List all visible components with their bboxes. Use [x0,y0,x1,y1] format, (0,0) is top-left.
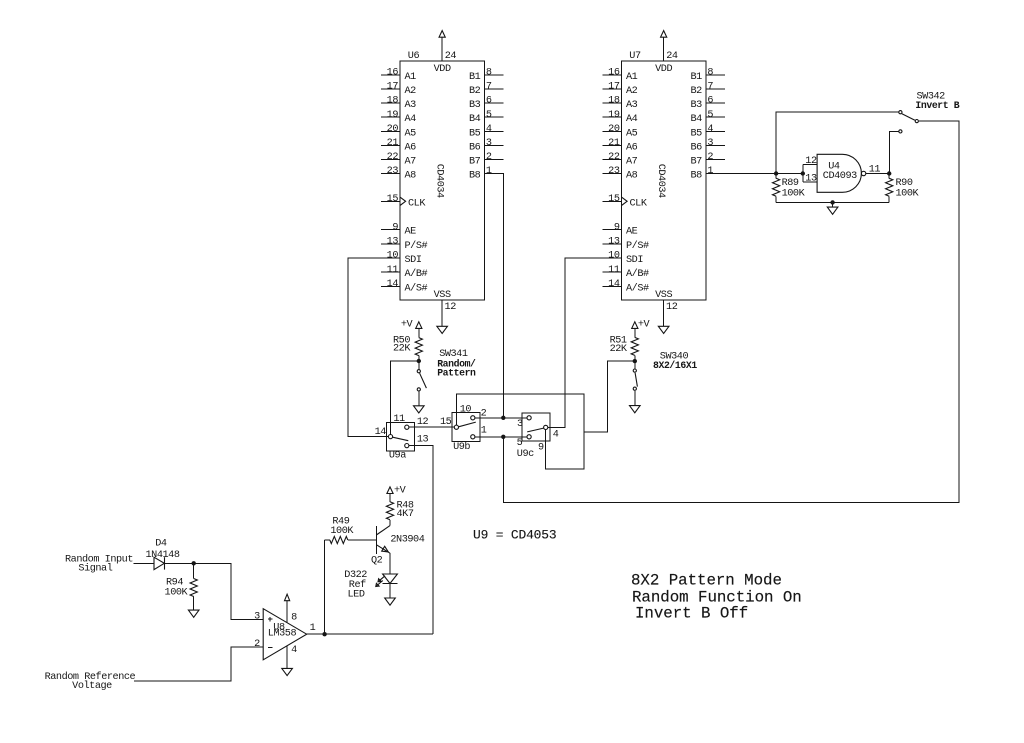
svg-text:B7: B7 [690,156,702,167]
svg-text:P/S#: P/S# [405,240,428,252]
svg-text:Invert B Off: Invert B Off [635,605,748,623]
svg-text:A1: A1 [626,72,638,83]
U7 A-input pins A1-A8 (pins 16-23) [603,68,638,182]
wire U7 B8 (pin 1) to NAND inputs [706,173,803,175]
svg-text:13: 13 [417,435,429,446]
svg-text:LM358: LM358 [268,629,297,640]
svg-text:10: 10 [608,251,620,262]
wire U8 pin 8 to +V [286,601,288,623]
svg-text:+V: +V [638,320,651,331]
svg-text:A/S#: A/S# [405,282,428,294]
svg-text:13: 13 [805,174,817,185]
svg-text:23: 23 [608,166,620,177]
node junction R51 / SW340 / control loop [633,359,637,363]
svg-text:8: 8 [291,613,297,624]
svg-text:100K: 100K [330,526,354,537]
svg-text:21: 21 [608,138,620,149]
wire SW342 riser from B8 junction [776,112,898,173]
wire R51 to SW340 junction [634,355,636,361]
svg-text:15: 15 [608,194,620,205]
svg-text:A/B#: A/B# [626,268,649,280]
wire ground rail under U4 [776,201,889,203]
wire U9a pin 13 to op-amp output [409,446,433,635]
wire Q2 emitter to LED D322 [389,553,391,574]
svg-text:B5: B5 [690,128,702,139]
svg-text:19: 19 [608,110,620,121]
U9a pin number labels [375,414,429,462]
svg-text:12: 12 [417,417,429,428]
svg-text:13: 13 [387,237,399,248]
ground below R94 [188,610,199,617]
resistor R49 100K [330,536,348,543]
svg-text:CLK: CLK [408,198,426,209]
resistor R48 4K7 [386,502,393,520]
svg-text:U9a: U9a [389,451,406,462]
wire U9b pin 1 to U9c pin 5 [475,436,527,438]
wire U9c pin 4 to U7 SDI (pin 10) [548,258,622,427]
svg-text:VDD: VDD [434,64,451,75]
svg-text:15: 15 [387,194,399,205]
svg-text:9: 9 [538,443,544,454]
svg-text:D4: D4 [155,539,167,550]
svg-text:Q2: Q2 [371,556,383,567]
svg-text:21: 21 [387,138,399,149]
node junction U6.B8 / U9b pin2 row [501,416,505,420]
IC U6 CD4034 body [400,51,484,301]
resistor R50 22K [415,338,422,356]
svg-text:6: 6 [707,96,713,107]
svg-text:B1: B1 [690,72,702,83]
svg-text:11: 11 [869,165,881,176]
node junction at NAND input bracket [801,171,805,175]
analog switch U9b (CD4053 section) [452,413,480,442]
diode D4 1N4148 [146,539,180,570]
svg-text:B8: B8 [469,171,481,182]
svg-text:A8: A8 [626,171,638,182]
wire U6 B8 (pin 1) down to U9b pin 2 row [484,174,503,418]
svg-text:6: 6 [486,96,492,107]
ground below U8 pin 4 [282,668,293,675]
switch SW341 Random/Pattern [417,361,426,406]
svg-text:4: 4 [291,645,297,656]
wire U9a pin 12 to U9b pin 15 [409,426,454,428]
svg-text:1: 1 [310,623,316,634]
svg-text:2: 2 [707,152,713,163]
+V power symbol above R50 [416,322,422,329]
svg-text:7: 7 [486,82,492,93]
svg-text:8: 8 [486,68,492,79]
svg-text:14: 14 [375,427,387,438]
wire +V to R50 [418,328,420,337]
svg-text:B3: B3 [690,100,702,111]
+V power symbol above R51 [632,322,638,329]
svg-text:VSS: VSS [655,290,672,301]
wire U4 output (pin 11) to R90 [866,173,889,175]
svg-text:100K: 100K [896,188,920,199]
svg-text:10: 10 [387,251,399,262]
svg-text:A3: A3 [405,100,417,111]
svg-text:Pattern: Pattern [437,368,476,379]
svg-text:CLK: CLK [630,198,648,209]
svg-text:CD4093: CD4093 [823,171,857,182]
svg-text:A2: A2 [405,86,417,97]
wire Q2 collector to R48 [389,520,391,526]
NAND input bracket pins 12 and 13 [803,164,817,181]
wire U6 SDI (pin 10) to U9a pin 14 [348,258,400,437]
wire U9b pin 2 to U9c pin 3 [475,417,527,419]
U7 pin 15 CLK stub [603,200,622,202]
svg-text:18: 18 [608,96,620,107]
svg-text:7: 7 [707,82,713,93]
svg-text:1: 1 [481,426,487,437]
svg-text:+V: +V [394,486,407,497]
svg-text:22: 22 [608,152,620,163]
svg-text:19: 19 [387,110,399,121]
svg-text:U6: U6 [408,51,420,62]
svg-text:P/S#: P/S# [626,240,649,252]
analog switch U9a (CD4053 section) [387,422,415,451]
transistor Q2 2N3904 [376,526,390,554]
svg-text:12: 12 [445,302,457,313]
svg-text:U9b: U9b [453,441,470,453]
node junction ground rail tap [830,200,834,204]
svg-text:4: 4 [486,124,492,135]
NAND gate U4 CD4093 [805,154,866,192]
svg-text:B6: B6 [469,142,481,153]
+V power symbol above R48 [387,487,393,494]
ground below LED D322 [385,598,396,605]
svg-text:A2: A2 [626,86,638,97]
svg-text:3: 3 [254,611,260,622]
resistor R51 22K [631,337,638,355]
svg-text:B2: B2 [690,86,702,97]
IC U7 CD4034 body [622,51,706,301]
svg-text:4: 4 [707,124,713,135]
+V power symbol above U7 [661,31,667,38]
LED D322 Ref LED [376,574,398,587]
wire +V to R51 [634,328,636,337]
svg-text:22: 22 [387,152,399,163]
svg-text:2: 2 [486,152,492,163]
svg-text:13: 13 [608,237,620,248]
ground below U6 [437,326,448,333]
svg-text:+V: +V [401,320,414,331]
svg-text:5: 5 [486,110,492,121]
resistor R90 100K with leads [888,174,890,179]
svg-text:9: 9 [614,222,620,233]
U6 pin 24 VDD lead [441,37,443,61]
U9b pin number labels [440,404,487,453]
svg-text:U9 = CD4053: U9 = CD4053 [473,528,556,543]
svg-text:U7: U7 [629,51,641,62]
svg-text:A7: A7 [626,156,638,167]
wire op-amp U8 output (pin 1) [307,633,434,635]
U6 pin 15 CLK stub [381,200,400,202]
node junction U9b pin1 row / SW342 feed [501,435,505,439]
wire LED cathode to ground [389,584,391,599]
svg-text:A6: A6 [626,142,638,153]
svg-text:23: 23 [387,166,399,177]
U9c pin number labels [517,419,559,460]
wire R49 to Q2 base [348,539,377,541]
svg-text:VDD: VDD [655,64,672,75]
svg-text:11: 11 [387,265,399,276]
svg-text:Invert B: Invert B [915,100,959,111]
ground below U7 [658,326,669,333]
+V power symbol above U8 [285,594,290,601]
svg-text:A7: A7 [405,156,417,167]
svg-text:B4: B4 [469,114,481,125]
svg-text:24: 24 [666,51,678,62]
node junction op-amp output / R49 [322,632,326,636]
wire op-amp output junction up to R49 [324,540,326,634]
svg-text:11: 11 [608,265,620,276]
wire R50 to SW341 and U9a pin 11 [418,356,420,361]
svg-text:SDI: SDI [405,255,422,266]
U6 control pins AE,P/S#,SDI,A/B#,A/S# [381,222,427,294]
wire R48 to +V [389,494,391,502]
U6 B-output pins B1-B7 (stubs) [469,68,503,182]
svg-text:17: 17 [387,82,399,93]
ground below U4 [827,207,838,214]
svg-text:VSS: VSS [434,290,451,301]
wire control loop U9b pin 10 to U9c pin 9 [456,394,584,469]
analog switch U9c (CD4053 section) [522,413,550,441]
svg-text:A1: A1 [405,72,417,83]
svg-text:20: 20 [608,124,620,135]
svg-text:3: 3 [517,419,523,430]
wire junction to U9a pin 11 control [391,361,419,434]
svg-text:1N4148: 1N4148 [146,550,180,561]
+V power symbol above U6 [439,31,445,38]
svg-text:1: 1 [486,166,492,177]
svg-text:2N3904: 2N3904 [390,535,424,546]
svg-text:8X2/16X1: 8X2/16X1 [653,360,697,371]
svg-text:5: 5 [707,110,713,121]
svg-text:8X2 Pattern Mode: 8X2 Pattern Mode [631,572,782,590]
svg-text:B1: B1 [469,72,481,83]
svg-text:A8: A8 [405,171,417,182]
svg-text:A5: A5 [626,128,638,139]
svg-text:CD4034: CD4034 [655,164,666,198]
svg-text:18: 18 [387,96,399,107]
svg-text:4K7: 4K7 [397,509,414,520]
svg-text:AE: AE [405,227,417,238]
svg-text:A5: A5 [405,128,417,139]
svg-text:B3: B3 [469,100,481,111]
svg-text:U9c: U9c [517,449,534,460]
svg-text:16: 16 [608,68,620,79]
node junction R50 / SW341 / U9a pin 11 [417,359,421,363]
svg-text:B4: B4 [690,114,702,125]
U7 control pins AE,P/S#,SDI,A/B#,A/S# [603,222,649,294]
svg-text:11: 11 [393,414,405,425]
svg-text:16: 16 [387,68,399,79]
svg-text:22K: 22K [393,344,411,355]
svg-text:15: 15 [440,417,452,428]
ground below SW340 [630,406,641,413]
svg-text:B8: B8 [690,171,702,182]
switch SW340 8X2/16X1 [633,361,637,406]
U7 pin 24 VDD lead [663,37,665,61]
switch SW342 Invert B [899,111,919,133]
svg-text:B2: B2 [469,86,481,97]
ground below SW341 [414,406,425,413]
svg-text:12: 12 [805,156,817,167]
resistor R90 zigzag [886,178,893,196]
svg-text:CD4034: CD4034 [434,164,445,198]
svg-text:A4: A4 [405,114,417,125]
wire junction to R94 [193,563,195,578]
svg-text:B6: B6 [690,142,702,153]
wire Random Input Signal to D4 anode [133,562,154,564]
U8 pin labels [254,611,315,656]
svg-text:AE: AE [626,227,638,238]
svg-text:14: 14 [387,279,399,290]
svg-text:A/S#: A/S# [626,282,649,294]
svg-text:5: 5 [517,438,523,449]
wire SW342 lower contact to U4 output junction [889,131,898,173]
svg-text:3: 3 [486,138,492,149]
svg-text:14: 14 [608,279,620,290]
wire U8 pin 4 to ground [286,646,288,669]
svg-text:22K: 22K [610,344,628,355]
svg-text:A6: A6 [405,142,417,153]
U6 A-input pins A1-A8 (pins 16-23) [381,68,416,182]
svg-text:10: 10 [460,404,472,415]
U7 pin 12 VSS lead [663,300,665,326]
resistor R89 100K with leads [775,174,777,179]
svg-text:9: 9 [392,222,398,233]
U7 B-output pins B1-B7 (stubs) [690,68,724,182]
wire R51 junction to U9b/U9c control loop [584,361,635,432]
svg-text:8: 8 [707,68,713,79]
svg-text:A3: A3 [626,100,638,111]
wire D4 cathode to op-amp pin 3 [165,563,264,619]
svg-text:24: 24 [445,51,457,62]
svg-text:B7: B7 [469,156,481,167]
svg-text:2: 2 [481,408,487,419]
svg-text:LED: LED [348,590,365,601]
wire R49 left lead [325,539,330,541]
node junction D4 / R94 [192,561,196,565]
resistor R89 zigzag [773,178,780,196]
svg-text:17: 17 [608,82,620,93]
svg-text:4: 4 [553,430,559,441]
wire Random Reference Voltage to op-amp pin 2 [134,647,263,681]
node junction U7.B8 / R89 / SW342 riser [774,171,778,175]
wire U9b pin1 row down, right and up to SW342 pole [503,121,959,502]
svg-text:Voltage: Voltage [72,680,112,692]
svg-text:1: 1 [707,166,713,177]
svg-text:20: 20 [387,124,399,135]
resistor R94 100K [190,579,197,597]
node junction U4 output / R90 / SW342 contact [887,171,891,175]
svg-text:3: 3 [707,138,713,149]
svg-text:SDI: SDI [626,255,643,266]
svg-text:2: 2 [254,639,260,650]
svg-text:B5: B5 [469,128,481,139]
wire rail to ground [832,202,834,207]
svg-text:A/B#: A/B# [405,268,428,280]
svg-text:Signal: Signal [78,563,112,575]
svg-text:A4: A4 [626,114,638,125]
op-amp U8 LM358 [263,609,307,660]
svg-text:100K: 100K [782,188,806,199]
svg-text:100K: 100K [165,588,189,599]
svg-text:12: 12 [666,302,678,313]
U6 pin 12 VSS lead [441,300,443,326]
